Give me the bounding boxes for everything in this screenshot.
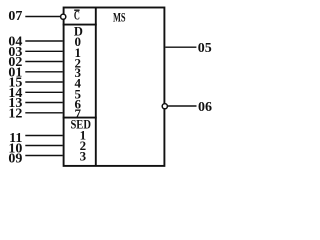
wire 03 [25, 50, 62, 52]
svg-text:09: 09 [8, 152, 22, 167]
svg-text:12: 12 [8, 106, 22, 121]
inverter bubble on C input [61, 14, 66, 19]
wire 12 [25, 112, 62, 114]
wire 13 [25, 102, 62, 104]
wire 01 [25, 71, 62, 73]
wire output 06 [168, 105, 197, 107]
wire 15 [25, 81, 62, 83]
wire output 05 [165, 46, 196, 48]
divider C/D [63, 24, 97, 26]
svg-text:07: 07 [8, 9, 22, 24]
wire 14 [25, 91, 62, 93]
wire 02 [25, 61, 62, 63]
inner column separator [95, 8, 97, 166]
op IC outline U1 (multiplexer MS) [64, 8, 165, 166]
wire 04 [25, 40, 62, 42]
wire 07 [25, 16, 60, 18]
wire 09 [25, 155, 62, 157]
wire 11 [25, 135, 62, 137]
divider D/SED [63, 117, 97, 119]
svg-text:3: 3 [80, 149, 87, 164]
inverter bubble on output 06 [162, 104, 167, 109]
wire 10 [25, 145, 62, 147]
svg-text:05: 05 [198, 41, 212, 56]
svg-text:06: 06 [198, 100, 212, 115]
svg-text:MS: MS [113, 11, 126, 25]
